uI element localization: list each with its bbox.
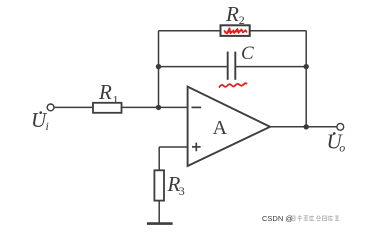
node junction C left [156, 64, 161, 69]
red squiggle under C [220, 83, 247, 87]
wire output [270, 126, 337, 128]
resistor R1 [93, 103, 122, 113]
label Uo [327, 130, 346, 155]
svg-text:i: i [46, 119, 49, 133]
inverting input minus sign [192, 106, 202, 108]
label R1 [98, 80, 119, 107]
resistor R3 [154, 170, 164, 200]
op-amp A [188, 87, 270, 166]
svg-text:R: R [225, 2, 239, 26]
label Ui [31, 108, 49, 133]
wire R3 to ground [158, 201, 160, 224]
label R3 [167, 172, 185, 198]
svg-text:C: C [241, 43, 254, 64]
node junction output [304, 124, 309, 129]
wire down to R3 [158, 147, 160, 170]
svg-text:2: 2 [239, 13, 245, 27]
capacitor C [228, 52, 236, 80]
wire R2 to right rail [250, 30, 307, 32]
wire input to R1 [54, 106, 93, 108]
wire C branch right [236, 66, 306, 68]
label R2 [225, 2, 245, 27]
svg-text:CSDN @: CSDN @ [262, 214, 293, 223]
wire right rail down [305, 31, 307, 127]
resistor R2 [221, 25, 250, 36]
wire top branch to R2 [159, 30, 221, 32]
red correction scribble in R2 [225, 28, 247, 33]
wire non-inverting input [159, 146, 187, 148]
svg-text:o: o [339, 140, 345, 154]
svg-text:A: A [213, 117, 228, 139]
watermark [262, 214, 339, 223]
wire C branch left [159, 66, 228, 68]
output terminal Uo [337, 123, 344, 130]
ground [147, 222, 173, 225]
svg-text:R: R [98, 80, 112, 104]
wire left rail up [158, 31, 160, 108]
non-inverting input plus sign [192, 143, 201, 152]
input terminal Ui [47, 104, 54, 111]
node junction C right [304, 64, 309, 69]
wire R1 to op-amp inverting input [122, 106, 188, 108]
svg-text:1: 1 [113, 93, 119, 107]
node junction at inverting input [156, 105, 161, 110]
svg-text:3: 3 [179, 184, 185, 198]
